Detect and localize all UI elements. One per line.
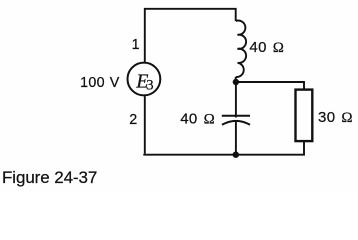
wire top: source terminal 1 up, across top, to inductor xyxy=(145,9,236,62)
svg-text:30 Ω: 30 Ω xyxy=(318,109,353,126)
svg-text:40 Ω: 40 Ω xyxy=(180,111,215,128)
wire: source terminal 2 down to bottom rail xyxy=(144,96,146,154)
node junction dot (top) xyxy=(233,79,239,85)
wire bottom rail xyxy=(143,142,304,155)
capacitor C curved bottom plate xyxy=(222,121,250,125)
node junction dot (bottom) xyxy=(233,152,239,158)
wire: inductor bottom to node xyxy=(235,77,237,82)
wire: node down to capacitor xyxy=(235,82,237,118)
svg-text:E3: E3 xyxy=(135,70,153,93)
wire: capacitor to bottom rail xyxy=(235,121,237,155)
svg-text:40 Ω: 40 Ω xyxy=(249,39,284,56)
capacitor C (40 ohm) top plate xyxy=(222,115,250,117)
voltage source E3 xyxy=(127,63,160,96)
inductor L (40 ohm) coil xyxy=(236,21,246,78)
svg-text:1: 1 xyxy=(132,37,140,53)
svg-text:Figure 24-37: Figure 24-37 xyxy=(2,168,97,187)
wire: node to resistor branch xyxy=(236,82,304,89)
svg-text:2: 2 xyxy=(129,112,137,128)
resistor R (30 ohm) body xyxy=(296,90,313,142)
svg-text:100 V: 100 V xyxy=(80,75,120,91)
